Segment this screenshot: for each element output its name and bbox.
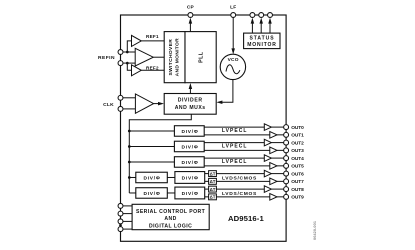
svg-text:REF1: REF1: [146, 34, 159, 39]
svg-text:OUT1: OUT1: [291, 133, 304, 139]
svg-text:LVDS/CMOS: LVDS/CMOS: [222, 176, 257, 182]
svg-text:AND MONITOR: AND MONITOR: [175, 38, 181, 76]
svg-text:06420-001: 06420-001: [313, 221, 317, 240]
svg-text:DIV/Φ: DIV/Φ: [143, 191, 160, 197]
svg-text:OUT8: OUT8: [291, 187, 304, 193]
svg-text:MONITOR: MONITOR: [247, 42, 276, 48]
svg-text:DIV/Φ: DIV/Φ: [181, 129, 198, 135]
svg-text:LVPECL: LVPECL: [222, 128, 248, 134]
svg-text:ΔT: ΔT: [210, 187, 216, 192]
svg-text:LVPECL: LVPECL: [222, 159, 248, 165]
svg-text:DIV/Φ: DIV/Φ: [182, 176, 199, 182]
svg-text:LVDS/CMOS: LVDS/CMOS: [222, 191, 257, 197]
svg-text:DIV/Φ: DIV/Φ: [182, 191, 199, 197]
svg-text:ΔT: ΔT: [210, 195, 216, 200]
svg-text:OUT9: OUT9: [291, 195, 304, 201]
svg-text:SWITCHOVER: SWITCHOVER: [168, 39, 174, 76]
svg-text:VCO: VCO: [228, 57, 239, 63]
svg-text:AND: AND: [164, 216, 176, 222]
svg-text:DIV/Φ: DIV/Φ: [181, 145, 198, 151]
svg-text:OUT2: OUT2: [291, 140, 304, 146]
svg-text:LF: LF: [230, 5, 236, 11]
svg-text:REF2: REF2: [146, 65, 159, 70]
svg-text:ΔT: ΔT: [210, 179, 216, 184]
svg-text:OUT4: OUT4: [291, 156, 304, 162]
svg-text:CLK: CLK: [103, 102, 114, 108]
svg-text:REFIN: REFIN: [98, 55, 115, 61]
svg-text:ΔT: ΔT: [210, 171, 216, 176]
svg-text:OUT7: OUT7: [291, 179, 304, 185]
svg-text:LVPECL: LVPECL: [222, 143, 248, 149]
svg-text:DIV/Φ: DIV/Φ: [181, 160, 198, 166]
svg-text:OUT0: OUT0: [291, 125, 304, 131]
svg-text:SERIAL CONTROL PORT: SERIAL CONTROL PORT: [136, 209, 206, 215]
svg-text:CP: CP: [187, 5, 195, 11]
svg-text:OUT6: OUT6: [291, 171, 304, 177]
svg-text:AND MUXs: AND MUXs: [175, 105, 206, 111]
svg-text:DIV/Φ: DIV/Φ: [143, 176, 160, 182]
svg-text:OUT5: OUT5: [291, 164, 304, 170]
svg-text:OUT3: OUT3: [291, 148, 304, 154]
svg-text:STATUS: STATUS: [250, 36, 275, 42]
svg-text:DIVIDER: DIVIDER: [178, 98, 203, 104]
svg-text:AD9516-1: AD9516-1: [228, 214, 264, 223]
svg-text:DIGITAL LOGIC: DIGITAL LOGIC: [149, 224, 192, 230]
svg-text:PLL: PLL: [198, 51, 204, 63]
